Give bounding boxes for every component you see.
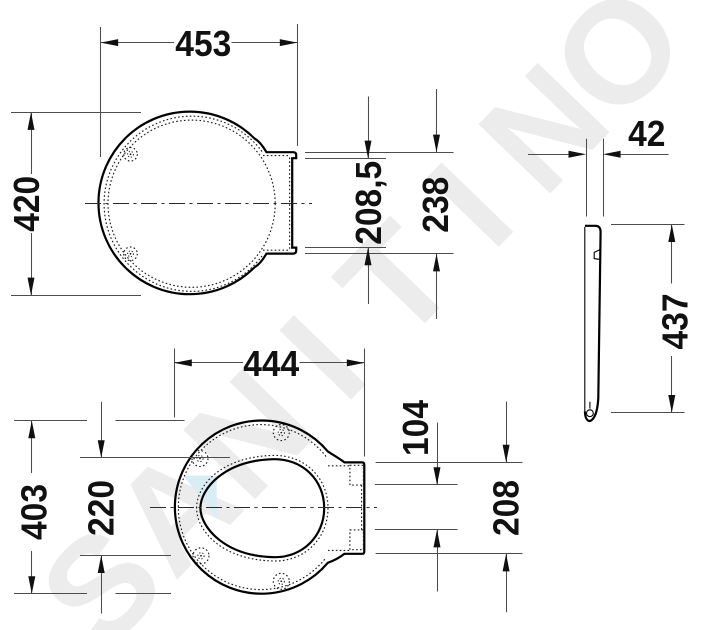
screw 1 left-upper bbox=[192, 451, 208, 467]
dim 453 bbox=[101, 24, 298, 157]
bumper center tick bbox=[589, 402, 591, 409]
svg-text:403: 403 bbox=[14, 484, 55, 540]
svg-text:437: 437 bbox=[655, 293, 696, 349]
screw 2 top bbox=[273, 425, 289, 441]
seat dotted circle (hidden) bbox=[108, 120, 275, 287]
svg-text:42: 42 bbox=[628, 114, 665, 155]
dim 208 bbox=[376, 402, 527, 613]
screw 4 bottom bbox=[273, 573, 289, 589]
dim 444 bbox=[174, 344, 364, 457]
screw 3 left-lower bbox=[193, 548, 209, 564]
bumper bottom bbox=[124, 247, 138, 261]
inner oval solid bbox=[200, 459, 324, 557]
svg-text:104: 104 bbox=[396, 400, 437, 456]
centerline top drawing bbox=[85, 203, 312, 205]
svg-text:238: 238 bbox=[416, 177, 457, 233]
profile outline bbox=[585, 226, 601, 421]
svg-text:444: 444 bbox=[243, 344, 299, 385]
ring outline bbox=[175, 421, 364, 594]
dim 220 bbox=[80, 402, 230, 614]
bottom bumper circle bbox=[587, 410, 594, 417]
hinge knob bbox=[594, 250, 600, 260]
lid dotted inset bbox=[104, 116, 262, 291]
svg-text:208,5: 208,5 bbox=[349, 161, 390, 245]
dim 420 bbox=[7, 112, 141, 295]
lid outline bbox=[98, 112, 296, 295]
dim 104 bbox=[375, 400, 458, 592]
ring dotted inset bbox=[178, 425, 326, 590]
svg-text:220: 220 bbox=[81, 480, 122, 536]
dims 208,5 and 238 bbox=[305, 89, 456, 319]
dim 437 bbox=[611, 224, 696, 412]
inner oval dotted outset bbox=[197, 455, 328, 561]
svg-text:208: 208 bbox=[486, 480, 527, 536]
svg-text:453: 453 bbox=[175, 24, 231, 65]
centerline bottom drawing bbox=[150, 507, 377, 509]
dim 403 bbox=[14, 421, 185, 594]
hinge bushing dotted rects bbox=[350, 465, 364, 485]
dim 42 bbox=[528, 114, 669, 217]
bumper top bbox=[124, 148, 138, 162]
svg-text:420: 420 bbox=[7, 176, 48, 232]
profile left edge bbox=[584, 227, 586, 413]
